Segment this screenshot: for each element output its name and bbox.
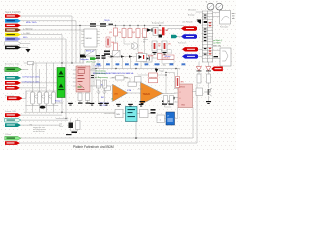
- feedback resistor RF1 above IC1A: [116, 76, 125, 80]
- cap C20 black bars: [162, 101, 167, 103]
- net label flag TRAFO-IN (green): [5, 67, 22, 71]
- K1 pins left: [73, 69, 76, 71]
- ground bar under RC cluster: [72, 132, 78, 134]
- svg-text:0R5: 0R5: [181, 82, 184, 84]
- diode bar inside box: [148, 57, 151, 61]
- wire from FB2: [21, 119, 68, 121]
- svg-text:LV Fahrstrom 16V=: LV Fahrstrom 16V=: [23, 76, 41, 79]
- svg-text:LV6: LV6: [29, 125, 32, 127]
- box right of IC3: [196, 88, 203, 96]
- net label flag DCC-B (red): [5, 24, 21, 28]
- junction at 66,118.5: [65, 118, 66, 119]
- vertical wire x80: [79, 25, 81, 63]
- svg-text:Anschluss: Anschluss: [55, 102, 63, 105]
- label marks right of lamp box: [232, 12, 235, 15]
- junction at 80,25.4: [79, 25, 80, 26]
- K1 contact diagonal: [79, 84, 84, 88]
- svg-text:6021 only: 6021 only: [213, 45, 221, 47]
- smd cap C11 top: [100, 23, 106, 25]
- cap marks right of K1: [91, 75, 94, 76]
- vertical wire x32.5 into relay bank: [32, 63, 34, 92]
- smd cap C10 top: [90, 23, 96, 25]
- net label flag TRAFO (white): [5, 42, 21, 46]
- Q2 emitter arrow: [209, 88, 212, 96]
- wire bus from DCC-B to output stage rail: [21, 24, 184, 26]
- svg-text:Regler: Regler: [138, 88, 143, 91]
- K1 coil mark: [78, 70, 85, 74]
- cap C21 black bars: [169, 101, 174, 103]
- feedback loop wire IC1A: [110, 77, 116, 79]
- electrolytic cap blob: [40, 106, 46, 109]
- wire from FS to relay bank: [23, 91, 27, 98]
- lamp curve inside: [222, 16, 230, 20]
- svg-text:TDA20: TDA20: [143, 93, 151, 96]
- resistor RD1 vertical mid: [97, 80, 101, 88]
- smd cap C12 top: [109, 24, 114, 25]
- svg-text:Platine: Platine: [5, 133, 12, 136]
- svg-text:2W: 2W: [158, 46, 161, 48]
- wire IC1B output right: [163, 92, 175, 95]
- IC2 pins right: [97, 31, 100, 33]
- hammer/tap symbol above pink relay: [80, 55, 86, 58]
- resistor R22 below K1: [86, 93, 90, 101]
- ground bar left of IC3: [170, 97, 175, 100]
- svg-text:2: 2: [180, 92, 181, 94]
- vertical wire x53.5 into relay bank: [53, 63, 55, 92]
- wire from TRAFO-IN: [22, 68, 29, 70]
- wire M2 down: [213, 10, 220, 13]
- black arrow into ladder y22: [197, 21, 201, 24]
- wire from 16V: [21, 39, 66, 119]
- wire from FB1 bus: [21, 114, 62, 116]
- vertical wire x46.5 into relay bank: [46, 63, 48, 92]
- op-amp IC1B triangle (power): [141, 83, 163, 105]
- ground stem smaller: [207, 102, 209, 105]
- IC3 pins left: [175, 88, 179, 90]
- diode D3 black on wire: [147, 28, 152, 31]
- svg-text:MZS+ 20V=: MZS+ 20V=: [26, 22, 38, 24]
- resistor RL1 under DL1: [197, 74, 201, 83]
- resistor R4 red: [128, 29, 132, 38]
- resistor R6 red: [143, 29, 147, 38]
- feedback wires IC1B: [138, 74, 149, 76]
- wire from TRAFO: [21, 42, 30, 44]
- wire from K1 right pins to x96: [94, 70, 96, 80]
- resistor R21 below K1: [78, 93, 82, 101]
- svg-text:Platine Fahrstrom und BÜM: Platine Fahrstrom und BÜM: [73, 145, 114, 149]
- diode D12 black: [129, 55, 132, 58]
- svg-text:NE556: NE556: [86, 38, 93, 40]
- ground symbol under GND wire: [26, 49, 31, 53]
- ground stem under IC1B: [141, 102, 144, 105]
- ladder rungs: [202, 11, 212, 62]
- black diode inside box: [146, 57, 149, 61]
- ground T x92: [90, 103, 95, 104]
- svg-text:Anzeige: Anzeige: [188, 14, 195, 17]
- svg-text:6: 6: [180, 98, 181, 100]
- diamond node under RD2: [103, 90, 106, 93]
- resistor RF2 horizontal: [128, 82, 137, 86]
- relay bank bottom rail: [26, 105, 58, 107]
- black arrow below bus: [155, 69, 159, 73]
- svg-text:R3: R3: [119, 32, 121, 34]
- net label flag OUT-R (red): [5, 141, 20, 145]
- wire caps to IC3: [165, 105, 172, 107]
- svg-text:LV Fahrstrom 16V=: LV Fahrstrom 16V=: [23, 80, 41, 83]
- net pill FAHR+ (red): [181, 26, 197, 30]
- svg-text:BM 8x an: BM 8x an: [86, 51, 94, 53]
- ground T x70.5 upper: [68, 103, 73, 104]
- green arrow mini flag: [90, 57, 97, 60]
- junctions on main rail: [115, 25, 116, 26]
- red component box mid row: [158, 54, 163, 60]
- svg-text:22k: 22k: [159, 30, 162, 32]
- lamp L1 box with red bar: [152, 41, 157, 51]
- svg-text:S3 aus: S3 aus: [165, 56, 171, 58]
- black mark right of ladder: [214, 56, 219, 57]
- wire bottom row connect: [104, 113, 115, 115]
- teal mini flag to blue pill: [171, 35, 178, 38]
- white box left of IC1B: [135, 77, 142, 83]
- wire lamp to ladder: [213, 16, 220, 18]
- optocoupler box with diode: [137, 54, 147, 62]
- red value box lower mid: [162, 55, 174, 59]
- resistor R30 red vertical: [106, 37, 110, 47]
- varistor RV3: [45, 92, 49, 104]
- LED DL2: [206, 67, 211, 71]
- ground T x141: [139, 104, 144, 105]
- net label flag 16V (violet): [5, 37, 21, 41]
- svg-text:NE555: NE555: [180, 87, 186, 89]
- wire into ladder y12: [196, 11, 202, 13]
- net label flag L+ (yellow): [5, 33, 21, 37]
- net pill2 FAHR2+ (red): [182, 47, 198, 51]
- net label flag L- (brown): [5, 28, 21, 32]
- switch symbol inside: [223, 51, 229, 61]
- ground T x130: [128, 104, 133, 105]
- stub wires caps row to bus: [97, 59, 99, 69]
- M2 needle: [218, 5, 221, 8]
- Q2 body bar: [208, 89, 209, 95]
- wire from FB3: [21, 124, 60, 126]
- black arrow left near text: [197, 20, 202, 24]
- wire from mid bus junction to IC3 pin: [166, 73, 175, 89]
- net pill FAHR- (blue): [181, 34, 197, 38]
- junction on bottom wire: [135, 137, 137, 139]
- white box under red value box: [162, 60, 174, 64]
- ground T x118: [116, 104, 121, 105]
- K1 internal text rows: [78, 66, 86, 69]
- diode box lower mid: [143, 55, 152, 62]
- ground T x100.5: [98, 103, 103, 104]
- LED DL1: [197, 67, 202, 71]
- svg-text:L+ 16V~: L+ 16V~: [23, 33, 31, 35]
- ladder red contact marks: [209, 22, 211, 23]
- cap C15 black block: [69, 123, 74, 129]
- svg-text:Fahrstrom: Fahrstrom: [178, 42, 187, 45]
- wire RL2 down to transistor: [208, 83, 210, 88]
- meter circle M1: [207, 3, 214, 10]
- ladder black contact marks: [204, 15, 207, 16]
- svg-text:Fahrregler: Fahrregler: [220, 27, 229, 29]
- label box beside L2 ground: [167, 50, 171, 53]
- svg-text:zum Fahrpult: zum Fahrpult: [182, 21, 193, 24]
- R7 red bar: [155, 29, 157, 34]
- svg-text:MS: MS: [117, 114, 121, 116]
- ground T under L2: [162, 52, 166, 53]
- text in X1 lower: [58, 89, 64, 90]
- diamond node under RD1: [97, 90, 100, 93]
- wire IC1A output: [128, 92, 141, 94]
- stem R22 to ground: [87, 101, 89, 103]
- opto red marks: [143, 55, 144, 59]
- opto internal diode: [139, 55, 143, 59]
- text in X1: [58, 76, 64, 77]
- varistor RV2: [38, 92, 42, 104]
- K1 pins right: [90, 69, 94, 71]
- lamp box TR: [220, 11, 231, 25]
- polarity diamond between RV1-RV2: [35, 95, 38, 98]
- net label flag LV1 (teal): [5, 76, 21, 80]
- resistor R7 vertical: [153, 27, 158, 35]
- svg-text:GND: GND: [181, 105, 186, 107]
- wire box to U2: [165, 118, 167, 120]
- Q1 legs: [131, 43, 134, 49]
- junction at 72,63: [71, 62, 72, 63]
- vertical wire x94 beside K1: [93, 60, 95, 86]
- junction at 62,112: [61, 112, 62, 113]
- junction at 166,75: [165, 74, 166, 75]
- horizontal wire y63: [24, 62, 84, 64]
- junctions on mid bus: [95, 68, 96, 69]
- DL1 bar: [197, 70, 202, 73]
- wires RD to grounds: [98, 88, 100, 102]
- varistor RV4: [52, 92, 56, 104]
- net label flag F1 (red): [5, 81, 21, 85]
- resistor RL2 under DL2: [207, 74, 211, 83]
- timer IC3 body (pink): [178, 84, 193, 108]
- red feedback resistor RF4: [149, 79, 158, 83]
- wires ladder bottom to LEDs: [198, 62, 200, 67]
- vertical wire x39.5 into relay bank: [39, 69, 41, 92]
- svg-text:Fahrstr. 16V: Fahrstr. 16V: [5, 110, 17, 113]
- varistor RV1: [31, 92, 35, 104]
- wire RS top to bus: [177, 69, 179, 77]
- cap C30 bars: [96, 55, 100, 56]
- meter circle M2: [216, 3, 223, 10]
- IC2 timer body: [84, 29, 97, 47]
- wire from F2: [20, 87, 46, 89]
- svg-text:Taktgeber: Taktgeber: [80, 58, 89, 61]
- transistor Q1: [131, 43, 137, 49]
- resistor R3 red: [122, 29, 126, 38]
- crystal diagonal: [85, 50, 96, 57]
- L1 red element: [154, 43, 156, 49]
- svg-text:IN2: IN2: [101, 97, 104, 99]
- net label flag FB3 (teal): [5, 123, 21, 127]
- arrow symbol in X1 bottom: [59, 84, 64, 88]
- ground T under L1: [152, 52, 156, 53]
- wires below resistors: [115, 36, 117, 43]
- cap C31 bars: [102, 55, 106, 56]
- net label flag FB1 (red): [5, 113, 21, 117]
- wire from L+: [21, 35, 62, 113]
- lamp L2 box with red bar: [162, 41, 167, 51]
- net label flag DCC-A (red): [5, 14, 21, 18]
- stem of tap symbol: [82, 58, 84, 64]
- svg-text:Trigger: Trigger: [159, 70, 165, 73]
- stem R21 to ground: [79, 101, 81, 103]
- svg-text:Ausgangsstufe: Ausgangsstufe: [152, 22, 164, 25]
- wire from MZS+: [21, 21, 76, 63]
- green terminal strip X1: [57, 68, 65, 98]
- resistor RO2 vertical: [170, 96, 174, 104]
- resistor R1 red: [114, 28, 118, 36]
- cyan box internal marks: [128, 109, 136, 110]
- svg-text:R5: R5: [133, 32, 135, 34]
- input resistor box RI1: [104, 86, 111, 90]
- svg-text:Fahrtrichtung: Fahrtrichtung: [95, 72, 106, 75]
- net label flag OUT-G (light green): [5, 136, 21, 140]
- svg-text:78L05: 78L05: [104, 20, 110, 22]
- junction on y58 wire: [159, 57, 160, 58]
- junction blob above lamps: [159, 35, 163, 38]
- bridge diagonal: [113, 51, 121, 58]
- svg-text:L- Schiene: L- Schiene: [23, 28, 33, 30]
- wire DL2 to RL2: [208, 71, 210, 74]
- long mid bus wire y68.5: [92, 68, 180, 70]
- comparator box (cyan): [126, 107, 138, 122]
- M1 needle: [209, 5, 212, 8]
- terminal ladder X2 rails: [201, 11, 203, 62]
- cap C40 bars: [151, 109, 156, 111]
- resistor R20 on y63 wire: [28, 61, 34, 64]
- svg-text:mit Begrenzung: mit Begrenzung: [95, 76, 108, 79]
- polarity diamond between RV2-RV3: [42, 95, 45, 98]
- wire drops from rail to R1 R3 R4 R5 R6: [115, 25, 117, 28]
- resistor R2 red lower: [114, 43, 118, 51]
- cap C13 black bars: [104, 51, 110, 53]
- wire from GND: [21, 48, 28, 50]
- IC2 pins left: [82, 31, 85, 33]
- red sense resistor RS vertical: [176, 77, 180, 88]
- box MS bottom row: [115, 110, 123, 118]
- junction at 62,63: [61, 62, 62, 63]
- long wire from OUT-G across bottom: [21, 108, 193, 139]
- svg-text:Anschluss Trafo: Anschluss Trafo: [5, 63, 20, 66]
- net label flag F2 (red): [5, 86, 20, 90]
- IC3 pin right wire: [193, 91, 197, 93]
- net label flag FS (red): [7, 96, 23, 100]
- wire from DCC-A: [21, 16, 72, 63]
- pill1 text: [186, 27, 194, 30]
- vertical wire x26 relay bank left: [25, 91, 27, 112]
- wires ladder to switch box: [213, 49, 220, 51]
- wire into red pill1: [168, 28, 182, 30]
- drop wires from relay bank to bus: [32, 104, 34, 112]
- resistor R5 red: [136, 29, 140, 38]
- label box beside L1 ground: [157, 50, 161, 53]
- junction at 166,72.5: [165, 72, 166, 73]
- ground bar under R22: [86, 103, 91, 104]
- red feedback resistor RF3: [149, 73, 158, 77]
- wire from F1: [21, 82, 62, 84]
- svg-text:16V~: 16V~: [23, 37, 29, 39]
- blue part label chips row y63: [97, 63, 101, 65]
- wire y56.5 middle diode row: [108, 56, 136, 58]
- resistor RD2 vertical mid: [103, 80, 107, 88]
- arrow symbol in X1 top: [59, 71, 64, 75]
- ground T x106.5: [104, 103, 109, 104]
- red flag Mittelpunkt (left pointing): [212, 67, 223, 72]
- ground bar under IC1B: [140, 101, 146, 102]
- wire U2 right up: [175, 108, 178, 119]
- net label flag MZS+ (blue): [5, 19, 21, 23]
- long wire from OUT-R across bottom: [20, 84, 197, 143]
- L2 red element: [164, 43, 166, 49]
- wire cyan box down: [135, 122, 137, 139]
- svg-text:10n: 10n: [163, 65, 166, 67]
- bridge box lower: [113, 51, 121, 58]
- wire y30 output stage: [144, 29, 168, 31]
- op-amp IC1A triangle: [113, 85, 128, 102]
- ground bar under Q2: [206, 101, 211, 102]
- pill2 text: [186, 35, 194, 38]
- polarity diamond between RV3-RV4: [49, 95, 52, 98]
- svg-text:zur MZS: zur MZS: [213, 43, 221, 45]
- wire y117.5 lower mid: [56, 118, 68, 120]
- relay bank top rail: [26, 90, 56, 92]
- svg-text:R1: R1: [110, 32, 112, 34]
- svg-text:100n: 100n: [59, 126, 63, 128]
- svg-text:Stand 04/2005: Stand 04/2005: [5, 11, 21, 14]
- vertical wire x36: [35, 63, 37, 83]
- wire pill2 to ladder: [198, 48, 202, 50]
- resistor RO1 vertical: [164, 96, 168, 104]
- stub wires diode row to bus: [111, 57, 113, 69]
- D3 bar: [151, 28, 154, 31]
- diode D11 black: [121, 55, 124, 58]
- diode D2: [139, 53, 143, 57]
- box left of U2: [157, 115, 165, 123]
- wires RC cluster: [70, 119, 72, 123]
- svg-text:K1 12V: K1 12V: [95, 66, 102, 68]
- net label flag FB2 (teal outline): [5, 118, 21, 122]
- svg-text:B6: B6: [143, 41, 145, 43]
- svg-text:an der Buchse: an der Buchse: [33, 131, 45, 133]
- wire into blue pill1: [178, 36, 183, 38]
- net label flag GND (black): [5, 46, 21, 50]
- net pill2 FAHR2- (blue): [182, 54, 198, 58]
- fuse red bar F10: [162, 27, 165, 35]
- U2 white text2: [167, 119, 173, 120]
- svg-text:547: 547: [209, 92, 212, 94]
- converter U2 body (blue): [166, 112, 175, 125]
- small dash above bottom wire: [66, 134, 72, 135]
- switch box right: [220, 48, 231, 66]
- crystal box under IC2: [85, 50, 96, 57]
- wire x92 vertical: [91, 63, 93, 102]
- relay K1 body (pink): [76, 66, 90, 92]
- svg-text:BY299: BY299: [148, 56, 153, 58]
- transistor Q2 right: [205, 91, 209, 93]
- lower bus wire y112: [24, 111, 115, 113]
- box right of cyan: [140, 110, 149, 118]
- resistor R40 vertical: [76, 121, 81, 130]
- ground bar under R21: [78, 103, 83, 104]
- diode D10 black: [111, 55, 114, 58]
- wire DL1 to RL1: [198, 71, 200, 74]
